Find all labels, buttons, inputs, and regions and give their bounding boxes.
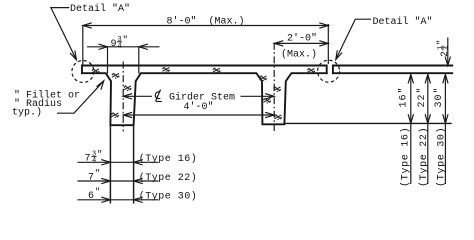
- svg-text:(Type 16): (Type 16): [400, 127, 412, 187]
- svg-text:(Type 30): (Type 30): [436, 127, 448, 187]
- svg-text:4: 4: [92, 157, 96, 165]
- svg-text:Detail "A": Detail "A": [373, 16, 433, 28]
- svg-text:(Max.): (Max.): [281, 49, 317, 61]
- svg-text:6: 6: [88, 191, 94, 202]
- svg-text:": ": [95, 187, 100, 197]
- svg-text:22": 22": [416, 86, 428, 107]
- svg-text:2: 2: [440, 51, 451, 57]
- svg-text:2'-0": 2'-0": [287, 33, 317, 45]
- svg-text:8'-0" (Max.): 8'-0" (Max.): [167, 16, 245, 28]
- svg-text:30": 30": [433, 86, 445, 107]
- svg-text:4'-0": 4'-0": [184, 101, 214, 113]
- svg-text:": ": [97, 150, 102, 160]
- svg-text:Detail "A": Detail "A": [70, 3, 130, 15]
- svg-text:16": 16": [397, 86, 409, 107]
- svg-text:(Type 30): (Type 30): [139, 191, 198, 203]
- svg-text:7: 7: [88, 172, 94, 183]
- svg-text:": ": [123, 35, 128, 45]
- svg-text:(Type 16): (Type 16): [139, 153, 198, 165]
- svg-text:9: 9: [111, 39, 117, 50]
- svg-text:(Type 22): (Type 22): [139, 172, 198, 184]
- svg-text:7: 7: [85, 154, 91, 165]
- svg-text:": ": [436, 40, 446, 45]
- svg-text:4: 4: [444, 46, 452, 50]
- svg-text:": ": [95, 168, 100, 178]
- svg-text:4: 4: [118, 43, 122, 51]
- svg-text:typ.): typ.): [12, 106, 42, 118]
- svg-text:(Type 22): (Type 22): [418, 127, 430, 187]
